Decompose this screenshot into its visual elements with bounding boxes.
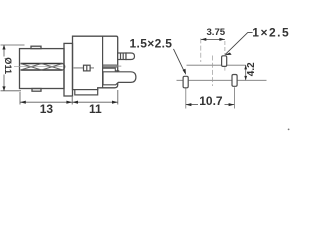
svg-text:1.5×2.5: 1.5×2.5 (130, 36, 173, 50)
svg-text:Ø11: Ø11 (3, 57, 13, 74)
svg-text:13: 13 (40, 102, 54, 116)
svg-text:10.7: 10.7 (199, 94, 223, 108)
svg-text:11: 11 (89, 102, 102, 116)
svg-text:4.2: 4.2 (246, 62, 257, 76)
svg-text:3.75: 3.75 (206, 27, 225, 38)
svg-text:1×2.5: 1×2.5 (252, 25, 290, 39)
